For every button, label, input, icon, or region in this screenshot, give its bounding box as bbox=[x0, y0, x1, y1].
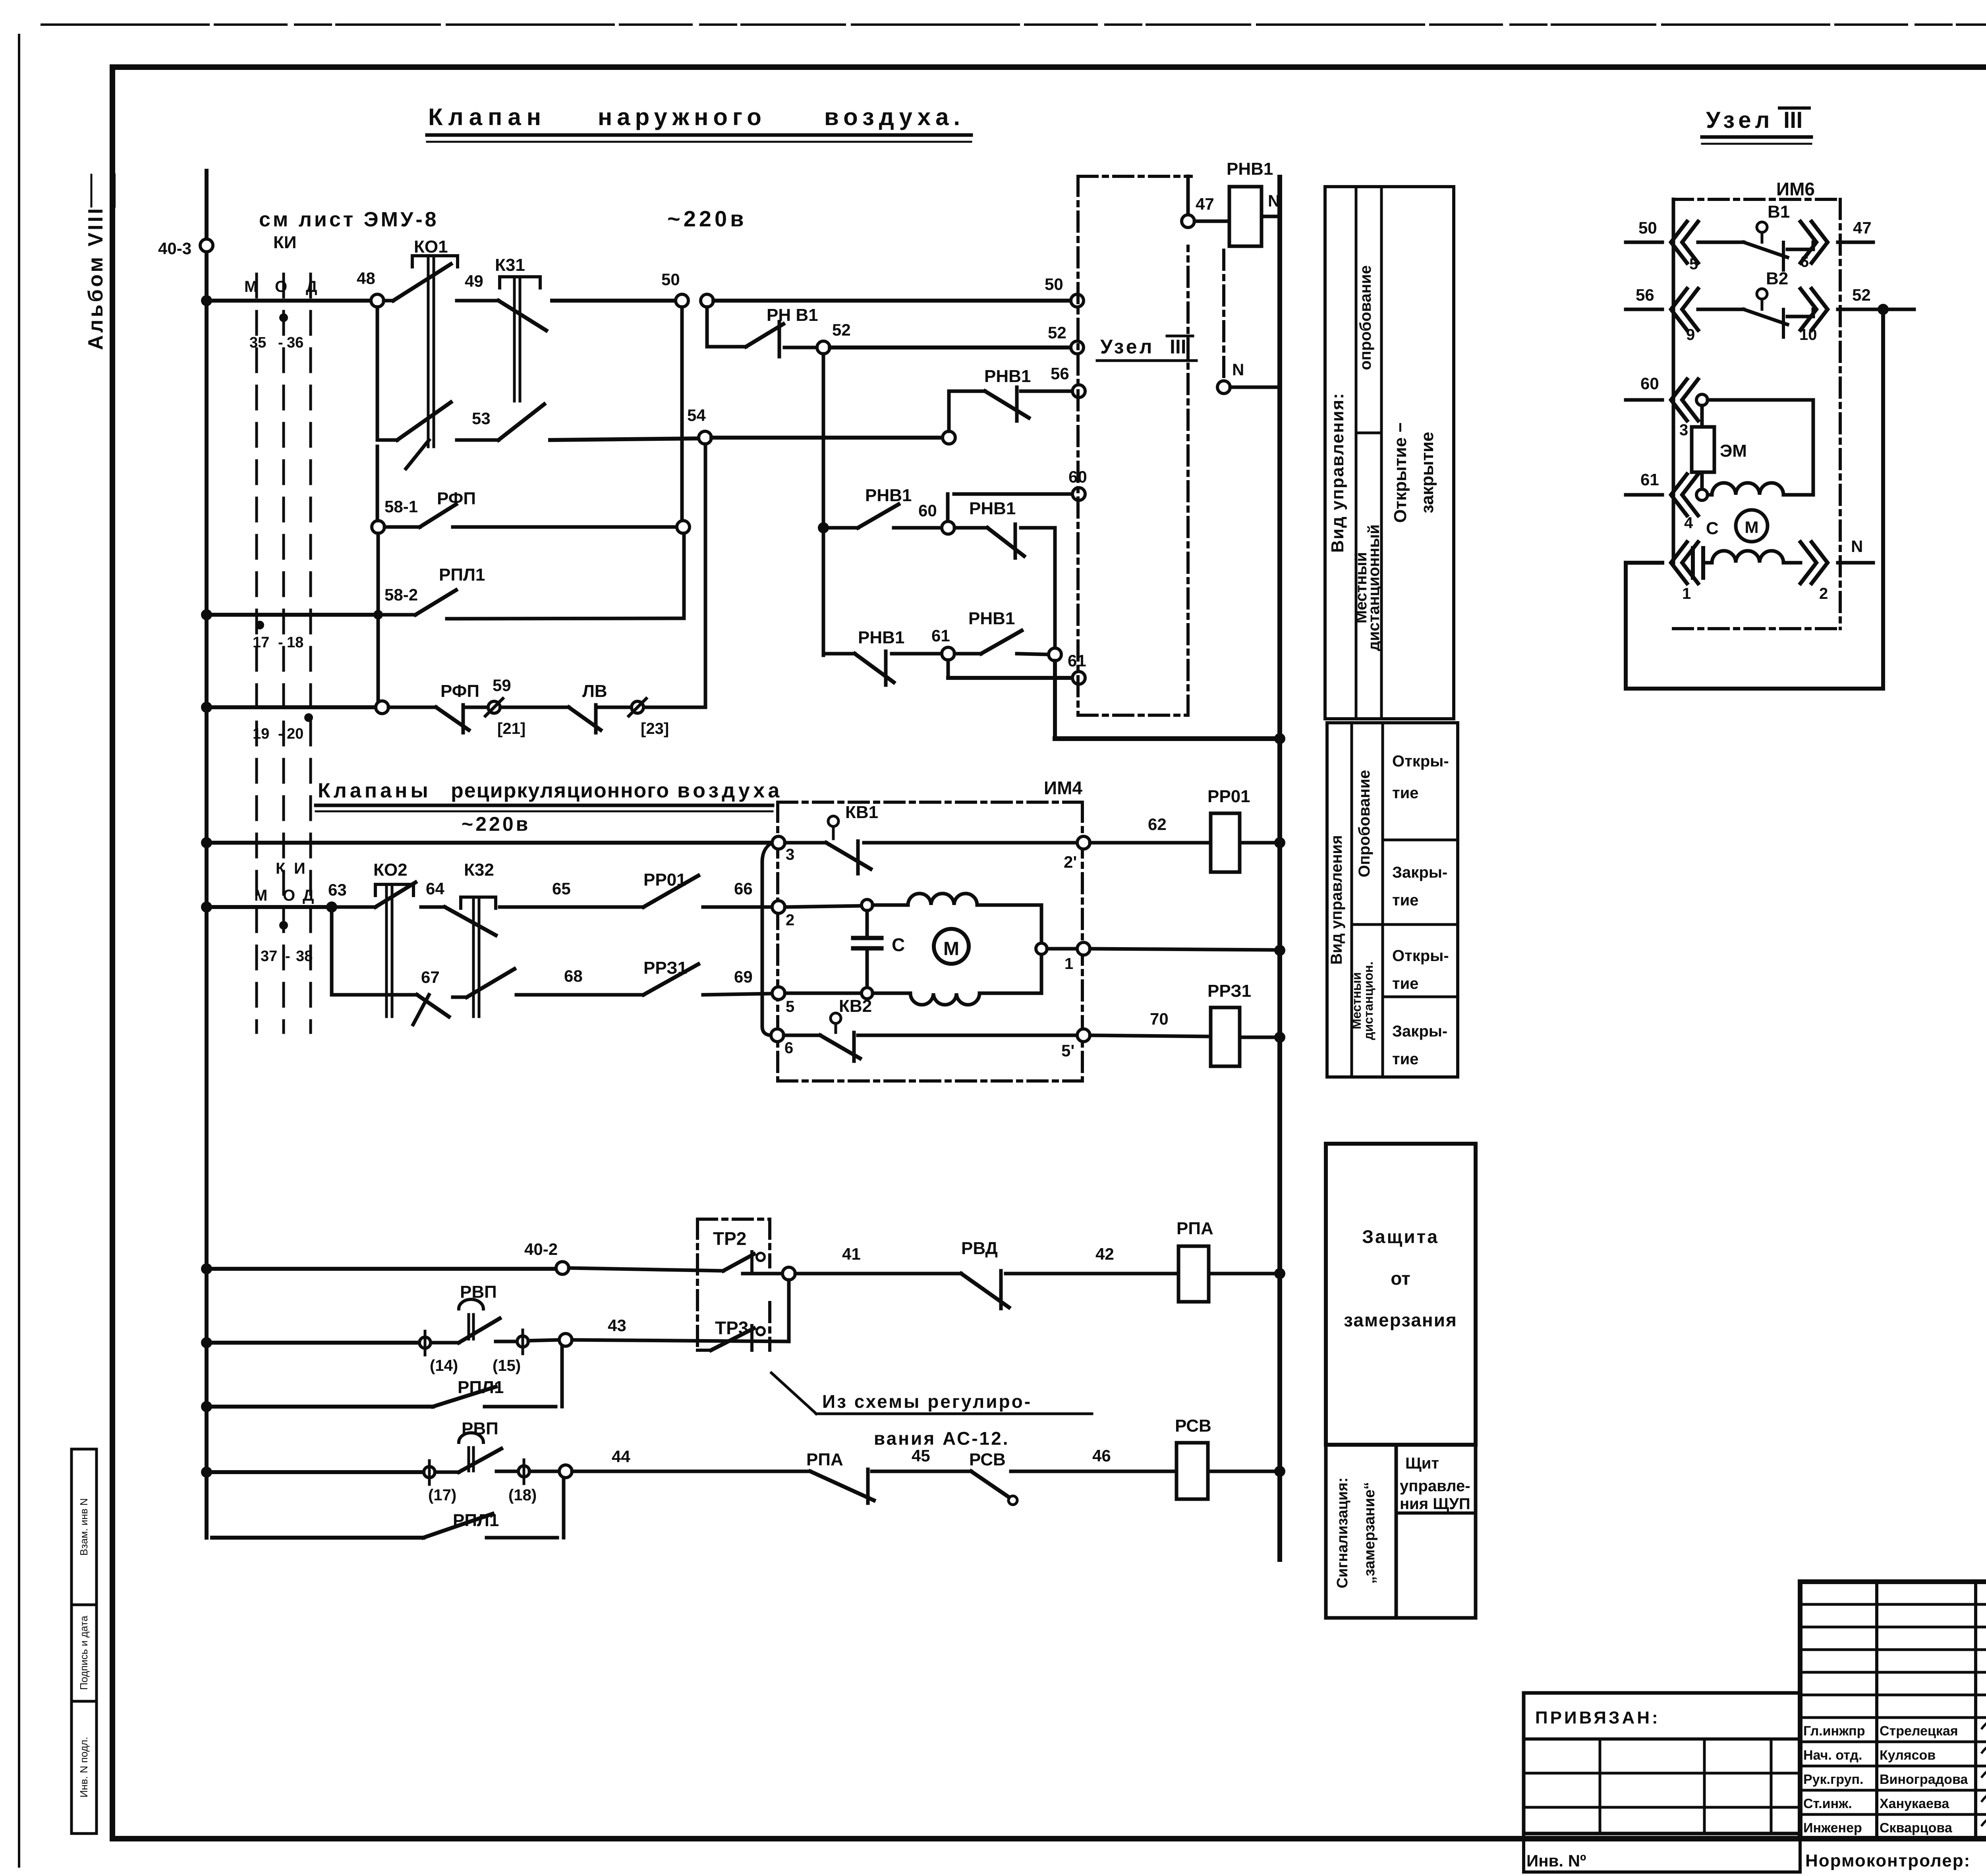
svg-text:РНВ1: РНВ1 bbox=[984, 367, 1031, 386]
K32 lower contact bbox=[467, 969, 514, 997]
svg-text:И: И bbox=[294, 860, 305, 877]
dashdot segment right of coil bbox=[1222, 250, 1225, 381]
junction rail B bbox=[201, 901, 212, 913]
svg-text:Откры-: Откры- bbox=[1392, 947, 1449, 965]
wire 52 bbox=[784, 346, 817, 349]
svg-text:О: О bbox=[275, 278, 287, 295]
svg-text:вания АС-12.: вания АС-12. bbox=[874, 1428, 1010, 1449]
vertical 2656 down bbox=[1053, 528, 1057, 654]
KO2 lower contact bbox=[397, 993, 417, 997]
title block main outline bbox=[1800, 1582, 1986, 1839]
node 5' bbox=[1077, 1029, 1090, 1042]
IM4 dashdot box bbox=[778, 801, 1082, 804]
svg-text:43: 43 bbox=[608, 1316, 626, 1335]
wire 42 bbox=[1006, 1272, 1178, 1276]
contact RNV1 row60 right bbox=[954, 526, 987, 530]
heavy wire to N bus bbox=[1053, 661, 1057, 739]
svg-text:Клапаны: Клапаны bbox=[318, 779, 431, 802]
svg-text:47: 47 bbox=[1196, 195, 1214, 213]
svg-text:РНВ1: РНВ1 bbox=[1227, 159, 1273, 179]
svg-text:(15): (15) bbox=[493, 1357, 521, 1374]
capacitor in row bbox=[1691, 548, 1695, 578]
svg-text:Рук.груп.: Рук.груп. bbox=[1803, 1772, 1863, 1787]
svg-text:РР01: РР01 bbox=[643, 870, 686, 890]
svg-text:дистанцион.: дистанцион. bbox=[1361, 961, 1376, 1040]
relay coil RR01 bbox=[1211, 813, 1240, 872]
small table narrow rows bbox=[1800, 1603, 1986, 1606]
test point (15) bbox=[496, 1340, 517, 1343]
svg-text:Скварцова: Скварцова bbox=[1880, 1820, 1953, 1835]
relay coil RR31 bbox=[1211, 1007, 1240, 1066]
node60 circle on uzel edge bbox=[946, 494, 950, 521]
row 61 chevron bbox=[1626, 493, 1662, 497]
test point [23] bbox=[598, 706, 631, 709]
junction bus rail1 bbox=[201, 295, 212, 306]
svg-text:48: 48 bbox=[357, 269, 375, 288]
wire 67 bbox=[453, 996, 467, 999]
svg-text:ЛВ: ЛВ bbox=[582, 681, 607, 701]
svg-text:Вид управления:: Вид управления: bbox=[1328, 392, 1347, 553]
node 2' bbox=[1077, 836, 1090, 849]
svg-text:Инв. N подл.: Инв. N подл. bbox=[78, 1737, 90, 1798]
test point (17) bbox=[424, 1467, 435, 1478]
svg-text:50: 50 bbox=[661, 270, 680, 289]
svg-text:9: 9 bbox=[1686, 326, 1695, 344]
svg-text:5: 5 bbox=[1689, 255, 1698, 273]
rezistor EM bbox=[1692, 427, 1714, 472]
node 2 bbox=[772, 901, 785, 913]
svg-text:58-2: 58-2 bbox=[384, 585, 418, 604]
N bus vertical bbox=[1277, 177, 1282, 1559]
svg-text:Стрелецкая: Стрелецкая bbox=[1880, 1724, 1958, 1739]
svg-text:Откры-: Откры- bbox=[1392, 753, 1449, 770]
outer thin border left bbox=[18, 35, 20, 1866]
svg-text:-: - bbox=[285, 948, 290, 965]
svg-text:35: 35 bbox=[249, 334, 266, 351]
svg-text:Взам. инв N: Взам. инв N bbox=[78, 1498, 90, 1556]
svg-text:Вид управления: Вид управления bbox=[1328, 835, 1345, 965]
svg-text:Кулясов: Кулясов bbox=[1880, 1748, 1936, 1763]
svg-text:50: 50 bbox=[1045, 275, 1063, 293]
svg-text:РПЛ1: РПЛ1 bbox=[453, 1511, 499, 1530]
bypass wire rail A to node 6 bbox=[762, 843, 772, 1035]
svg-text:РСВ: РСВ bbox=[1175, 1416, 1211, 1436]
svg-text:Инв. Nº: Инв. Nº bbox=[1526, 1851, 1586, 1870]
node 58-1 bbox=[372, 521, 384, 533]
junction 40-2 bbox=[201, 1263, 212, 1274]
relay coil RSV bbox=[1177, 1443, 1208, 1499]
table vid upravleniya top bbox=[1325, 187, 1454, 719]
KO2 upper contact bbox=[338, 905, 375, 909]
svg-text:60: 60 bbox=[918, 501, 937, 520]
svg-text:К32: К32 bbox=[464, 860, 494, 880]
contact RNV1 row60 left bbox=[823, 526, 858, 530]
svg-text:52: 52 bbox=[1048, 323, 1066, 342]
EM coil arcs bbox=[1708, 483, 1813, 495]
svg-text:66: 66 bbox=[734, 879, 753, 898]
row 43 from bus bbox=[201, 1337, 212, 1348]
svg-text:60: 60 bbox=[1640, 374, 1659, 393]
stator coil bottom bbox=[873, 993, 1041, 1005]
vertical A from node 50 down bbox=[680, 307, 684, 521]
svg-text:1: 1 bbox=[1064, 955, 1073, 973]
svg-text:тие: тие bbox=[1392, 892, 1418, 909]
svg-text:РНВ1: РНВ1 bbox=[858, 628, 904, 647]
svg-text:ИМ6: ИМ6 bbox=[1776, 179, 1815, 199]
svg-text:42: 42 bbox=[1095, 1245, 1114, 1263]
capacitor C bbox=[865, 911, 869, 937]
svg-text:4: 4 bbox=[1684, 514, 1693, 532]
svg-text:управле-: управле- bbox=[1400, 1477, 1470, 1495]
svg-text:40-2: 40-2 bbox=[524, 1240, 558, 1258]
rail A to node 3 bbox=[212, 841, 772, 845]
svg-text:41: 41 bbox=[842, 1245, 861, 1263]
svg-text:19: 19 bbox=[253, 726, 269, 742]
contact RNV1 row61 right bbox=[954, 652, 981, 656]
RVP contact row43 bbox=[431, 1341, 459, 1345]
svg-text:N: N bbox=[1851, 537, 1863, 556]
relay coil RPA bbox=[1178, 1246, 1209, 1302]
contact K31 upper bbox=[498, 301, 546, 330]
rail 1 (48..50) bbox=[212, 299, 373, 303]
svg-text:Из схемы регулиро-: Из схемы регулиро- bbox=[822, 1391, 1032, 1412]
KO1 lower contact bbox=[397, 402, 451, 440]
stator coil top bbox=[873, 894, 1041, 905]
svg-text:III: III bbox=[1170, 336, 1186, 358]
svg-text:от: от bbox=[1391, 1268, 1410, 1289]
node 50 at uzel bbox=[1071, 294, 1084, 307]
svg-text:[21]: [21] bbox=[497, 720, 525, 737]
K31 lower contact bbox=[498, 404, 544, 440]
switch V1 bbox=[1757, 222, 1767, 232]
svg-text:М: М bbox=[254, 887, 267, 904]
left rail of IM6 bbox=[1672, 199, 1675, 563]
svg-text:ПРИВЯЗАН:: ПРИВЯЗАН: bbox=[1535, 1708, 1660, 1727]
svg-text:ИМ4: ИМ4 bbox=[1044, 778, 1082, 798]
row 59 from bus bbox=[201, 702, 212, 713]
svg-text:49: 49 bbox=[465, 272, 483, 290]
svg-text:-: - bbox=[278, 334, 283, 351]
svg-text:2': 2' bbox=[1064, 853, 1077, 871]
vertical 52->60 bbox=[822, 354, 825, 655]
svg-text:68: 68 bbox=[564, 967, 583, 985]
svg-text:Нач. отд.: Нач. отд. bbox=[1803, 1748, 1862, 1763]
svg-text:Д: Д bbox=[303, 887, 314, 904]
wire to LV contact bbox=[500, 706, 569, 709]
svg-text:РВП: РВП bbox=[462, 1419, 498, 1438]
svg-text:рециркуляционного: рециркуляционного bbox=[451, 779, 670, 802]
svg-text:56: 56 bbox=[1636, 286, 1654, 304]
relay coil RNV1 bbox=[1229, 187, 1262, 246]
svg-text:опробование: опробование bbox=[1357, 265, 1374, 370]
svg-text:52: 52 bbox=[832, 320, 851, 339]
svg-text:см лист ЭМУ-8: см лист ЭМУ-8 bbox=[259, 208, 439, 231]
node 40-2 bbox=[556, 1262, 569, 1274]
svg-text:5: 5 bbox=[786, 998, 794, 1015]
test point 59 [21] bbox=[466, 706, 488, 709]
svg-text:47: 47 bbox=[1853, 218, 1872, 237]
vertical 58-1node to 58-2 bbox=[377, 533, 380, 705]
node 63 bbox=[326, 901, 337, 913]
svg-text:Защита: Защита bbox=[1362, 1226, 1439, 1247]
svg-text:53: 53 bbox=[472, 409, 491, 428]
svg-text:46: 46 bbox=[1092, 1446, 1111, 1465]
svg-text:Альбом VIII: Альбом VIII bbox=[84, 206, 107, 350]
row 56 branch bbox=[949, 391, 985, 431]
svg-text:Узел: Узел bbox=[1706, 107, 1773, 133]
svg-text:2: 2 bbox=[1819, 585, 1828, 602]
wire 68 bbox=[516, 993, 643, 997]
wire to cap junction bbox=[785, 906, 861, 907]
svg-text:РФП: РФП bbox=[440, 681, 479, 701]
svg-text:„замерзание“: „замерзание“ bbox=[1361, 1482, 1378, 1584]
node 52 at uzel bbox=[1071, 341, 1084, 354]
wire 60 bbox=[894, 526, 942, 530]
row 60 chevron bbox=[1626, 398, 1662, 402]
svg-text:РВП: РВП bbox=[460, 1282, 497, 1302]
svg-text:Нормоконтролер:: Нормоконтролер: bbox=[1805, 1851, 1971, 1870]
row 1-2 bottom bbox=[1626, 561, 1662, 565]
K32 upper contact bbox=[445, 907, 496, 935]
wire 53 bbox=[457, 438, 498, 442]
svg-text:РПА: РПА bbox=[806, 1450, 843, 1469]
shchit upravleniya box bbox=[1396, 1445, 1476, 1618]
contact RVD bbox=[961, 1274, 1009, 1307]
svg-text:Клапан: Клапан bbox=[428, 104, 547, 130]
svg-text:69: 69 bbox=[734, 967, 753, 986]
svg-text:РН В1: РН В1 bbox=[767, 305, 818, 325]
svg-text:О: О bbox=[283, 887, 295, 904]
svg-text:воздуха.: воздуха. bbox=[824, 104, 965, 130]
svg-text:Подпись и дата: Подпись и дата bbox=[78, 1615, 90, 1690]
wire 59 right to vertical B bbox=[644, 706, 705, 709]
svg-text:РР01: РР01 bbox=[1207, 787, 1250, 806]
RVP linkage row44 bbox=[468, 1448, 470, 1471]
svg-text:РПА: РПА bbox=[1177, 1219, 1213, 1238]
svg-text:20: 20 bbox=[287, 726, 303, 742]
svg-text:РНВ1: РНВ1 bbox=[865, 486, 912, 505]
contact RFP row 59 bbox=[388, 706, 436, 709]
svg-text:17: 17 bbox=[253, 634, 269, 651]
svg-text:58-1: 58-1 bbox=[384, 497, 418, 516]
KI MOD dashed verticals (full height) bbox=[255, 274, 258, 1033]
svg-text:Опробование: Опробование bbox=[1356, 770, 1373, 878]
svg-text:Сигнализация:: Сигнализация: bbox=[1334, 1477, 1351, 1588]
node 40-3 bbox=[200, 239, 213, 252]
wire 49b to node50 bbox=[552, 299, 676, 303]
svg-text:ТР2: ТР2 bbox=[713, 1228, 746, 1249]
svg-text:Виноградова: Виноградова bbox=[1880, 1772, 1968, 1787]
contact RNV1 (52) bbox=[746, 324, 783, 347]
svg-text:64: 64 bbox=[426, 879, 444, 898]
row 60 upper wire bbox=[954, 492, 1079, 496]
K31 linkage bbox=[513, 278, 516, 401]
svg-text:наружного: наружного bbox=[598, 104, 766, 130]
svg-text:38: 38 bbox=[296, 948, 313, 965]
svg-text:67: 67 bbox=[421, 968, 440, 986]
svg-text:59: 59 bbox=[493, 676, 511, 695]
svg-text:3: 3 bbox=[786, 846, 794, 863]
KV2 contact bbox=[784, 1034, 820, 1037]
svg-text:КВ1: КВ1 bbox=[845, 803, 878, 822]
wire 58-1 bbox=[453, 525, 677, 529]
svg-text:тие: тие bbox=[1392, 1050, 1418, 1068]
wire 69 bbox=[703, 994, 772, 995]
svg-text:Д: Д bbox=[306, 278, 317, 295]
lead from TR box to text bbox=[771, 1373, 816, 1414]
svg-text:45: 45 bbox=[912, 1446, 930, 1465]
node 54 bbox=[699, 431, 711, 444]
node 50 bbox=[676, 294, 688, 307]
svg-text:2: 2 bbox=[786, 911, 794, 929]
svg-text:44: 44 bbox=[612, 1447, 630, 1466]
svg-text:Щит: Щит bbox=[1405, 1455, 1439, 1472]
vertical B node54 down to row 59 bbox=[704, 444, 707, 707]
svg-text:РНВ1: РНВ1 bbox=[969, 499, 1016, 518]
svg-text:РРЗ1: РРЗ1 bbox=[1207, 981, 1251, 1001]
svg-text:ЭМ: ЭМ bbox=[1720, 441, 1747, 461]
motor M uzel bbox=[1736, 510, 1768, 542]
svg-text:тие: тие bbox=[1392, 975, 1418, 992]
vertical 58-1 to 58-2 bbox=[682, 533, 686, 618]
svg-text:5': 5' bbox=[1061, 1041, 1074, 1060]
uzel III dashdot box (left schematic) bbox=[1078, 175, 1191, 178]
node 5 bbox=[772, 987, 785, 1000]
row 47 (V1) bbox=[1626, 241, 1662, 244]
svg-text:РНВ1: РНВ1 bbox=[968, 609, 1015, 628]
svg-text:62: 62 bbox=[1148, 815, 1167, 834]
svg-text:50: 50 bbox=[1638, 218, 1657, 237]
svg-text:Закры-: Закры- bbox=[1392, 1023, 1447, 1040]
RPL1 bottom row bbox=[212, 1536, 423, 1540]
svg-text:РФП: РФП bbox=[437, 489, 476, 508]
svg-text:М: М bbox=[244, 278, 257, 295]
svg-text:-: - bbox=[278, 726, 283, 742]
wire 49 bbox=[457, 299, 498, 303]
RPL1 row (43 aux) bbox=[201, 1401, 212, 1412]
row 61 lower bbox=[947, 660, 950, 678]
node 43 bbox=[559, 1334, 572, 1346]
contact LV bbox=[569, 707, 601, 730]
top fold dashed line bbox=[42, 23, 1986, 26]
svg-text:Узел: Узел bbox=[1100, 336, 1154, 358]
KV1 contact bbox=[785, 841, 826, 845]
svg-text:ния ЩУП: ния ЩУП bbox=[1400, 1495, 1470, 1513]
svg-text:М: М bbox=[943, 938, 959, 959]
row 58-2 from bus bbox=[201, 609, 212, 620]
row 67 bbox=[332, 993, 397, 997]
wire 41 bbox=[795, 1272, 961, 1276]
svg-text:63: 63 bbox=[328, 880, 347, 899]
svg-text:В2: В2 bbox=[1766, 269, 1788, 288]
svg-text:40-3: 40-3 bbox=[158, 239, 191, 258]
IM6 dashdot box bbox=[1673, 198, 1840, 201]
svg-text:III: III bbox=[1783, 107, 1802, 133]
svg-text:С: С bbox=[892, 934, 905, 955]
wire 58-2 bbox=[447, 618, 684, 619]
node 50b bbox=[701, 294, 713, 307]
node 47 and RNV1 coil bbox=[1186, 176, 1190, 215]
svg-text:70: 70 bbox=[1150, 1009, 1169, 1028]
node 6 bbox=[771, 1029, 784, 1042]
svg-text:(18): (18) bbox=[508, 1486, 537, 1504]
svg-text:РВД: РВД bbox=[961, 1239, 998, 1258]
wire 62 bbox=[1090, 841, 1211, 845]
contact RPL1 bottom bbox=[423, 1514, 493, 1538]
zashchita box bbox=[1326, 1144, 1476, 1445]
signatures scribbles bbox=[1982, 1716, 1986, 1730]
test point (18) bbox=[496, 1470, 518, 1473]
row 61 left bbox=[823, 652, 855, 656]
svg-text:закрытие: закрытие bbox=[1418, 432, 1437, 513]
stamp box column bbox=[71, 1449, 97, 1834]
signalizaciya box bbox=[1326, 1445, 1396, 1618]
svg-text:(17): (17) bbox=[428, 1486, 456, 1504]
wire 54 continue bbox=[711, 436, 943, 440]
wire 46 bbox=[1011, 1470, 1177, 1473]
svg-text:Ст.инж.: Ст.инж. bbox=[1803, 1796, 1852, 1811]
node 56 bbox=[1072, 385, 1085, 398]
svg-text:65: 65 bbox=[552, 879, 571, 898]
svg-text:36: 36 bbox=[287, 334, 303, 351]
svg-text:РРЗ1: РРЗ1 bbox=[643, 958, 687, 978]
svg-text:РПЛ1: РПЛ1 bbox=[439, 565, 485, 585]
wire 66 bbox=[703, 905, 772, 909]
test point (14) bbox=[419, 1337, 431, 1348]
svg-text:N: N bbox=[1232, 360, 1244, 379]
svg-text:Инженер: Инженер bbox=[1803, 1820, 1862, 1835]
contact RPL1 bbox=[433, 1387, 496, 1407]
row2 53-54 wire bbox=[377, 438, 397, 442]
contact KO1 upper bbox=[376, 307, 379, 440]
RVP linkage row43 bbox=[468, 1314, 470, 1339]
KO1 linkage bbox=[427, 257, 430, 447]
contact RNV1 row61 left bbox=[855, 654, 894, 682]
row 44 bbox=[201, 1467, 212, 1478]
wire 64 bbox=[421, 905, 445, 909]
coil arcs row1 bbox=[1712, 551, 1801, 563]
svg-text:6: 6 bbox=[1800, 253, 1809, 270]
big loop uzel III bbox=[1626, 316, 1883, 689]
svg-text:дистанционный: дистанционный bbox=[1365, 525, 1383, 651]
svg-text:52: 52 bbox=[1852, 286, 1871, 304]
svg-text:замерзания: замерзания bbox=[1344, 1310, 1457, 1330]
wire 54 bbox=[550, 438, 699, 440]
row 52 (V2) bbox=[1626, 308, 1662, 311]
svg-text:Ханукаева: Ханукаева bbox=[1880, 1796, 1949, 1811]
svg-text:1: 1 bbox=[1682, 585, 1691, 602]
vertical 41-43 bbox=[787, 1280, 791, 1341]
wire 70 bbox=[1090, 1035, 1211, 1036]
svg-text:~220в: ~220в bbox=[667, 206, 747, 231]
svg-text:РСВ: РСВ bbox=[969, 1450, 1006, 1469]
motor M bbox=[934, 929, 969, 964]
vertical 48 down to 58-1 bbox=[376, 446, 379, 521]
wire 45 bbox=[872, 1470, 971, 1473]
node 41 bbox=[782, 1267, 795, 1280]
svg-text:61: 61 bbox=[1640, 470, 1659, 489]
svg-text:В1: В1 bbox=[1768, 202, 1790, 222]
svg-text:18: 18 bbox=[287, 634, 303, 651]
svg-text:3: 3 bbox=[1679, 421, 1688, 439]
svg-text:6: 6 bbox=[784, 1039, 793, 1057]
vertical 63 down to row67 bbox=[330, 907, 334, 995]
svg-text:К: К bbox=[276, 860, 286, 877]
signature rows bbox=[1800, 1741, 1986, 1743]
node 3 bbox=[772, 836, 785, 849]
contact RFP 58-1 bbox=[384, 525, 420, 529]
tap 19-20 bbox=[304, 713, 313, 722]
